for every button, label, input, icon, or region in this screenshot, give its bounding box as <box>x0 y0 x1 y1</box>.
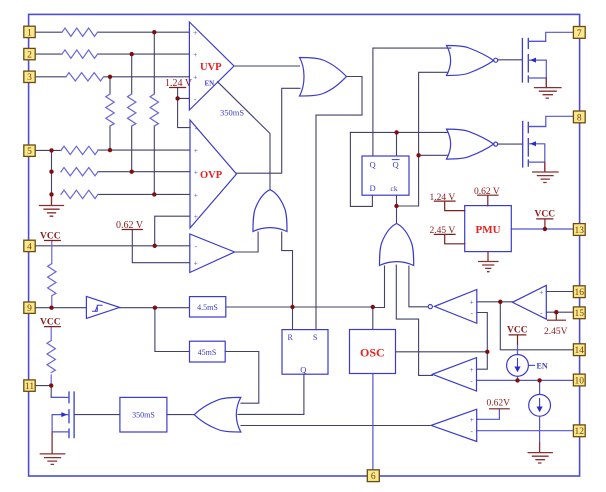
wire divider row3 <box>52 194 191 205</box>
or-gate OR2 up <box>253 190 287 232</box>
vref bar 1.24V UVP <box>170 87 186 89</box>
box 4.5mS <box>190 297 226 317</box>
box OSC <box>350 330 396 374</box>
wire compC plus to 0.62V <box>477 409 500 419</box>
resistor pin5 row <box>61 146 98 154</box>
svg-text:14: 14 <box>575 346 585 356</box>
svg-text:16: 16 <box>575 288 585 298</box>
pin 11 <box>24 380 35 391</box>
resistor pin1 row <box>62 28 98 36</box>
wire column pin1 divider <box>153 32 155 194</box>
svg-text:11: 11 <box>25 382 34 392</box>
resistor divider col3 <box>150 94 158 126</box>
wire OR4 mid input to compB <box>396 265 432 375</box>
svg-text:2: 2 <box>27 51 32 61</box>
vcc bar EN circle <box>509 335 526 344</box>
wire OR2 out to UVP EN diagonal <box>218 82 271 190</box>
op-amp CMP1 0.62V comparator <box>190 234 235 273</box>
node 2.45V pin15 <box>554 310 558 314</box>
resistor pin2 row <box>62 50 98 58</box>
wire latch R tap <box>292 307 294 330</box>
svg-text:1: 1 <box>27 28 32 38</box>
buffer schmitt pin9 <box>86 296 119 318</box>
input marks <box>193 28 543 436</box>
svg-text:0.62 V: 0.62 V <box>116 220 144 231</box>
vref bar 0.62V CMP1 <box>122 229 142 231</box>
svg-text:3: 3 <box>27 73 32 83</box>
svg-text:OSC: OSC <box>360 346 385 360</box>
resistor VCC pin9 <box>48 241 56 308</box>
svg-text:PMU: PMU <box>476 224 501 236</box>
svg-text:UVP: UVP <box>200 62 222 73</box>
pin 2 <box>24 48 35 59</box>
vref 0.62V PMU <box>478 195 499 205</box>
wire NOR1 out to mosfet gate <box>498 59 523 61</box>
vcc bar PMU out <box>537 219 553 229</box>
wire OR2 right input <box>282 232 293 307</box>
svg-text:+: + <box>194 168 198 177</box>
node CS1 bottom <box>515 378 519 382</box>
pin 1 <box>24 26 35 37</box>
svg-text:Q: Q <box>370 160 376 170</box>
or-gate OR1 <box>300 58 347 97</box>
latch RS box <box>282 330 328 375</box>
wire pin3 row to UVP <box>35 76 189 78</box>
wire column pin3 divider <box>109 77 111 150</box>
wire PMU out to pin13 <box>511 228 573 230</box>
nor-gate NOR2 bubble <box>494 142 498 146</box>
pin 13 <box>573 224 585 236</box>
ground mosfet Q2 <box>533 162 558 182</box>
vref bar 0.62V compC <box>490 408 510 410</box>
wire pin16 row <box>546 291 573 293</box>
svg-text:1.24 V: 1.24 V <box>165 78 193 89</box>
node pin9 row <box>49 306 53 310</box>
box 45mS <box>190 341 226 362</box>
svg-text:+: + <box>539 287 543 296</box>
svg-text:12: 12 <box>575 427 585 437</box>
resistor divider col2 <box>127 94 135 126</box>
wire UVP out to OR1 <box>234 65 300 67</box>
op-amp compC <box>431 409 477 441</box>
resistors <box>47 28 159 386</box>
wire mosfet3 drain <box>51 386 64 398</box>
wire EN circle to EN label <box>529 364 535 366</box>
pin 12 <box>573 425 585 437</box>
svg-text:4.5mS: 4.5mS <box>197 303 218 312</box>
wire OR4 right input to compA <box>409 266 428 307</box>
op-amp compD <box>512 285 546 319</box>
op-amp compA bubble <box>428 305 432 309</box>
wire pin2 row to UVP <box>35 53 189 55</box>
resistor row7 <box>61 190 98 198</box>
svg-text:VCC: VCC <box>507 326 528 336</box>
nor-gate NOR1 <box>447 46 494 76</box>
svg-text:+: + <box>193 73 197 82</box>
wire pin7 to mosfet Q1 drain <box>529 32 573 41</box>
box 350mS <box>120 397 167 432</box>
svg-text:6: 6 <box>371 472 376 482</box>
vcc bar pin4 <box>45 240 61 242</box>
ground PMU <box>479 252 498 272</box>
node row6 a <box>49 170 53 174</box>
wire 1.24V to UVP minus <box>178 88 190 128</box>
svg-text:+: + <box>470 298 474 307</box>
svg-text:15: 15 <box>575 309 585 319</box>
svg-text:8: 8 <box>577 113 582 123</box>
pin 8 <box>573 111 585 123</box>
node pin11 <box>49 383 53 387</box>
vref 2.45V pin15 <box>548 312 566 320</box>
node latch R <box>290 305 294 309</box>
wire NOR2 lower input <box>419 154 448 156</box>
node compA plus <box>498 300 502 304</box>
resistor row6 <box>61 168 98 176</box>
wire pin1 row to UVP <box>35 31 189 33</box>
wire Qbar row <box>350 132 447 156</box>
pin 10 <box>573 374 585 386</box>
wire pin9 row to buffer <box>35 307 86 309</box>
vcc bar pin11 <box>45 326 61 328</box>
wire OSC right to dot <box>397 351 488 353</box>
current source CS2 circle <box>529 394 551 416</box>
svg-text:+: + <box>470 415 474 424</box>
node OSC right <box>485 350 489 354</box>
wire OVP input4 tap <box>155 216 190 246</box>
svg-text:5: 5 <box>27 147 32 157</box>
svg-text:4: 4 <box>27 242 32 252</box>
svg-text:+: + <box>194 146 198 155</box>
svg-text:VCC: VCC <box>40 232 61 242</box>
wire 350mS to OR3 <box>74 414 194 416</box>
wire compA plus net <box>477 301 513 303</box>
wire OR4 left input <box>373 266 385 308</box>
op-amp compB <box>432 358 476 391</box>
svg-text:350mS: 350mS <box>132 411 155 420</box>
op-amp UVP comparator <box>189 22 234 110</box>
wires left top rows <box>35 32 573 425</box>
grounds and voltage bars <box>40 78 562 464</box>
wire pin8 to mosfet Q2 drain <box>529 116 573 126</box>
wire latch Q to OR3 <box>238 374 304 414</box>
vref 1.24V PMU <box>434 201 464 211</box>
wire pin5 row <box>35 149 190 151</box>
wire Q to NOR1 <box>373 48 451 156</box>
svg-text:VCC: VCC <box>40 318 61 328</box>
wire divider row2 <box>52 150 191 194</box>
svg-text:-: - <box>470 427 473 436</box>
pin 9 <box>24 302 35 313</box>
or-gate OR3 left <box>194 397 241 432</box>
wire pin14 row <box>500 302 573 350</box>
ground mosfet Q1 <box>535 78 561 98</box>
node pin3 row <box>108 75 112 79</box>
svg-text:-: - <box>194 94 197 103</box>
wire OSC top tap <box>372 307 374 330</box>
pin 16 <box>573 286 585 298</box>
schmitt symbol <box>93 305 103 311</box>
node ck <box>394 204 398 208</box>
svg-text:+: + <box>469 365 473 374</box>
box PMU <box>465 206 512 252</box>
svg-text:+: + <box>194 259 198 268</box>
svg-text:+: + <box>194 190 198 199</box>
svg-text:EN: EN <box>205 80 215 88</box>
transistor Q3 nmos pin11 <box>73 392 75 438</box>
svg-text:2.45V: 2.45V <box>544 327 568 337</box>
ground divider left <box>40 194 64 216</box>
vref 2.45V PMU <box>434 234 464 243</box>
svg-text:D: D <box>370 183 376 193</box>
svg-text:0.62V: 0.62V <box>487 399 511 409</box>
svg-text:+: + <box>193 50 197 59</box>
node 45mS tap <box>153 306 157 310</box>
svg-text:EN: EN <box>537 362 548 371</box>
wire pin10 row <box>477 379 574 381</box>
resistor pin3 row <box>66 73 104 81</box>
node VCC pin13 <box>543 227 547 231</box>
svg-text:350mS: 350mS <box>220 108 244 118</box>
wire OVP out to OR1 <box>237 88 301 173</box>
svg-text:Q: Q <box>393 160 399 170</box>
wire compA minus down <box>477 313 488 370</box>
node row7 a <box>49 192 53 196</box>
wire OSC bottom to pin6 <box>372 374 374 470</box>
node pin4 row <box>153 244 157 248</box>
node 1.24V tap <box>175 96 179 100</box>
wire pin11 row <box>35 385 51 387</box>
svg-text:VCC: VCC <box>535 210 556 220</box>
resistor divider col1 <box>106 94 114 126</box>
wire CMP1 out to OR2 <box>235 232 259 252</box>
node Qbar <box>394 130 398 134</box>
ground mosfet Q3 <box>40 432 64 465</box>
op-amp OVP comparator <box>190 120 237 228</box>
label Qbar overline <box>392 159 399 161</box>
wire ck junction <box>397 72 448 223</box>
svg-text:ck: ck <box>391 184 398 193</box>
svg-text:2.45 V: 2.45 V <box>430 226 456 236</box>
wire 4.5mS out row <box>226 306 373 308</box>
node OSC top <box>371 305 375 309</box>
ground CS2 <box>528 443 552 463</box>
wire 45mS out <box>225 352 259 404</box>
svg-text:-: - <box>540 308 543 317</box>
node CS2 top <box>537 378 541 382</box>
svg-text:-: - <box>471 308 474 317</box>
wire Qbar to D loop <box>350 132 372 206</box>
wire pin15 row <box>546 311 573 313</box>
wire NOR2 out to mosfet gate <box>498 143 523 145</box>
node pin2 row <box>130 52 134 56</box>
svg-text:Q: Q <box>300 365 306 375</box>
resistor VCC pin11 <box>47 327 55 386</box>
wire OR1 out to latch S <box>316 77 362 330</box>
pin 3 <box>24 71 35 82</box>
wire EN circle stem <box>517 344 519 380</box>
node row6 b <box>130 170 134 174</box>
svg-text:9: 9 <box>27 304 32 314</box>
node row7 b <box>152 192 156 196</box>
wire buffer out to 4.5mS <box>120 307 190 309</box>
node pin5 a <box>49 148 53 152</box>
nor-gate NOR1 bubble <box>494 58 498 62</box>
node pin1 row <box>152 30 156 34</box>
svg-text:10: 10 <box>575 376 585 386</box>
transistor Q2 nmos pin8 <box>522 122 524 168</box>
node NOR2 input <box>416 153 420 157</box>
wire pin4 row to CMP1 <box>35 245 190 247</box>
wire CS2 stems <box>539 380 541 443</box>
wire column pin2 divider <box>131 54 133 172</box>
svg-text:1.24 V: 1.24 V <box>430 193 456 203</box>
pin 15 <box>573 307 585 319</box>
svg-text:45mS: 45mS <box>198 348 217 357</box>
pin 14 <box>573 344 585 356</box>
pin 7 <box>573 27 585 39</box>
wire compC out to OR3 <box>241 425 431 427</box>
op-amp compA <box>435 290 477 324</box>
current source CS1 EN circle <box>507 355 529 377</box>
pin 6 <box>367 470 379 482</box>
wire 0.62V to CMP1 plus <box>132 230 190 263</box>
flip-flop U2 box <box>362 156 409 195</box>
svg-text:S: S <box>313 333 317 342</box>
pin 5 <box>24 145 35 156</box>
blue wires <box>373 32 574 469</box>
svg-text:+: + <box>194 212 198 221</box>
svg-text:OVP: OVP <box>200 170 223 181</box>
mosfets <box>51 38 546 437</box>
transistor Q1 nmos pin7 <box>521 39 523 83</box>
nor-gate NOR2 <box>447 129 494 159</box>
or-gate OR4 up <box>380 224 414 266</box>
pin 4 <box>24 240 35 251</box>
svg-text:-: - <box>470 376 473 385</box>
svg-text:-: - <box>194 242 197 251</box>
svg-text:7: 7 <box>577 29 582 39</box>
node pin5 b <box>108 148 112 152</box>
wire 45mS tap <box>155 308 190 352</box>
components blue <box>86 22 550 442</box>
svg-text:13: 13 <box>575 226 585 236</box>
wire pin12 row to compC <box>477 430 574 432</box>
svg-text:+: + <box>193 28 197 37</box>
svg-text:R: R <box>288 333 294 342</box>
svg-text:0.62 V: 0.62 V <box>474 187 500 197</box>
